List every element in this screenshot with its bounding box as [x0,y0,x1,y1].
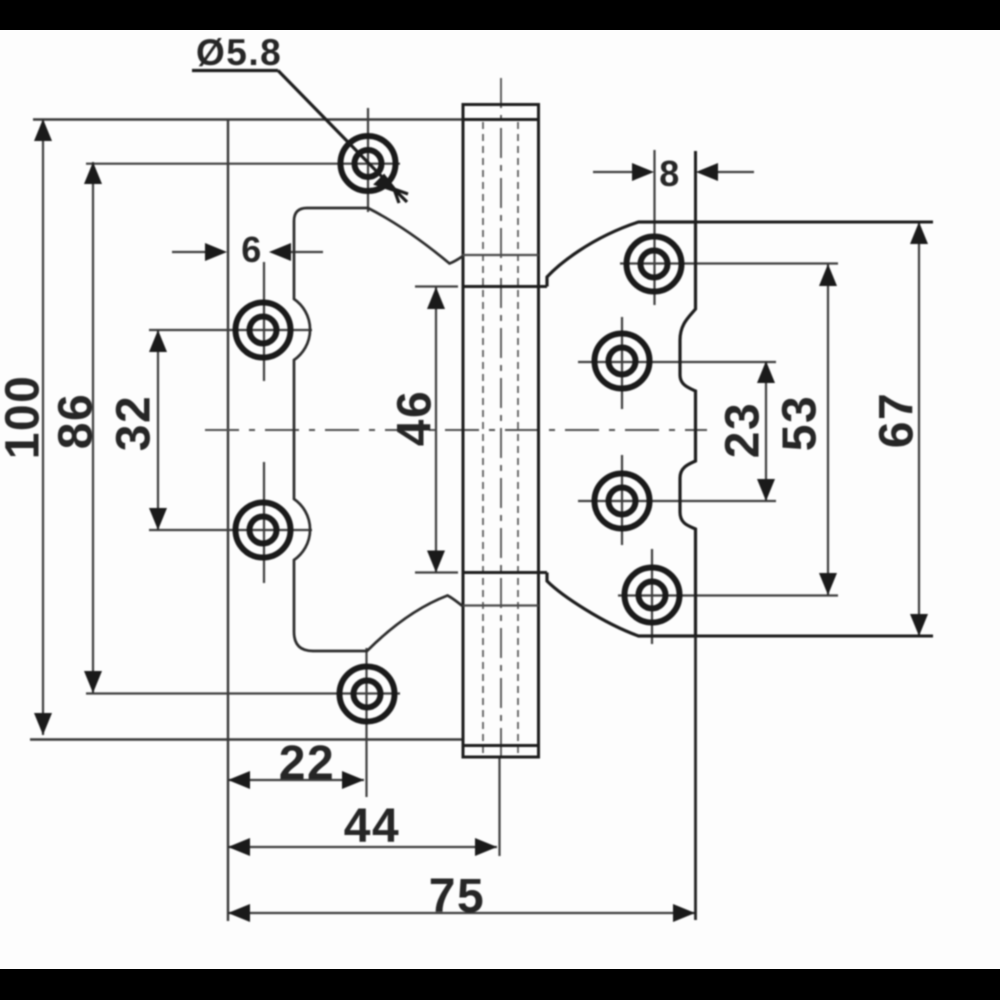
hole LM2 vertical cross [263,462,265,583]
screw hole RM2 [595,474,650,529]
dimension line 75 [228,912,695,914]
8-dim leader right [714,171,754,173]
right leaf bottom edge extension (67 dim) [695,635,933,638]
diameter leader Ø5.8 underline [192,69,278,72]
svg-text:6: 6 [241,229,263,270]
arrow 22 right [342,771,364,789]
right leaf outline [547,222,696,636]
extension line y=330 (32 top / hole LM1 cross) [149,329,312,331]
svg-text:44: 44 [344,800,400,853]
svg-text:32: 32 [108,395,161,451]
extension line y=530 (32 bottom / hole LM2 cross) [149,529,312,531]
hole RT horizontal cross / 53-dim top extension [620,262,838,264]
arrow 8 left (points right) [632,163,654,181]
hole LM1 vertical cross [263,262,265,381]
barrel outline [462,105,548,758]
6-dim leader left [172,251,209,253]
arrow 53 bottom [819,573,837,595]
dimension line 32 [157,330,159,530]
barrel top cap line [462,103,541,106]
arrow 53 top [819,264,837,286]
svg-text:22: 22 [279,737,335,790]
46-dim extension bottom [415,571,458,573]
dimension line 67 [918,222,920,636]
arrowheads [34,119,928,922]
hole LT vertical cross [367,108,369,212]
right leaf right edge lower extension (75 dim) [694,636,697,920]
23-dim bottom extension / hole RM2 cross [578,500,776,502]
barrel bottom cap line [462,756,541,759]
dimension line 86 [92,162,94,693]
svg-text:8: 8 [659,153,681,194]
arrow 22 left [228,771,250,789]
barrel pin vertical centerline [500,78,502,757]
svg-text:53: 53 [774,395,827,451]
dimension line 22 [228,779,364,781]
arrow 6 left (points right) [205,243,227,261]
hole RB vertical cross [651,549,653,644]
arrow 100 top [34,119,52,141]
arrow 86 bottom [84,671,102,693]
dimension line 46 [435,287,437,572]
screw hole LM2 [236,503,291,558]
screw hole RB [625,568,680,623]
barrel left edge [462,105,465,758]
arrow 32 bottom [149,508,167,530]
svg-text:86: 86 [50,393,103,449]
horizontal centerline of hinge [205,429,707,431]
barrel top knuckle line [462,118,541,121]
hole LB vertical cross + 22-dim extension [365,648,367,797]
dimension line 44 [228,846,497,848]
6-dim leader right [288,251,323,253]
8-dim extension / hole RT vertical cross [653,150,655,305]
extension line y=163.7 (86 top / hole LT cross) [86,163,400,165]
knuckle joint line lower bold [462,571,548,574]
svg-text:Ø5.8: Ø5.8 [196,32,282,73]
arrow 100 bottom [34,713,52,735]
knuckle joint line upper bold [462,285,548,288]
arrow 67 top [910,222,928,244]
thin dimension / extension / centerline work [43,108,919,913]
arrow 86 top [84,162,102,184]
left leaf left edge + extension to bottom dims [227,120,229,922]
arrow 46 top [427,287,445,309]
right leaf top edge extension (67 dim) [695,221,933,224]
arrow 32 top [149,330,167,352]
bottom letterbox bar [0,969,1000,1000]
barrel hidden line left [482,122,484,755]
screw hole LT [341,136,396,191]
hole RB horizontal cross / 53-dim bottom extension [618,594,838,596]
top letterbox bar [0,0,1000,30]
arrow 8 right (points left) [696,163,718,181]
8-dim leader left [593,171,636,173]
hole RM2 vertical cross [621,455,623,545]
left leaf top edge + 100-dim extension [33,118,540,120]
extension line y=691.5 (86 bottom / hole LB cross) [86,692,400,694]
arrow 75 left [228,904,250,922]
barrel bottom knuckle line [462,744,541,747]
svg-text:100: 100 [0,375,50,460]
44-dim right extension [498,757,500,856]
left leaf plate outline (thin rectangle) [30,120,540,922]
46-dim extension top [415,285,458,287]
svg-text:67: 67 [871,392,924,448]
arrow 23 top [757,361,775,383]
svg-text:23: 23 [717,402,770,458]
left leaf recess outline [294,208,463,651]
arrow 46 bottom [427,551,445,573]
screw hole LB [340,667,395,722]
arrow 23 bottom [757,479,775,501]
arrow 6 right (points left) [269,243,291,261]
dimension line 23 [765,361,767,501]
diameter leader diagonal [278,71,390,186]
barrel right edge [537,105,540,758]
screw hole RT [627,237,682,292]
arrow 44 right [475,838,497,856]
arrow 67 bottom [910,614,928,636]
svg-text:46: 46 [389,390,442,446]
screw hole LM1 [236,303,291,358]
dimension line 53 [827,264,829,595]
arrow 44 left [228,838,250,856]
diameter leader arrowhead [376,176,408,203]
arrow 75 right [673,904,695,922]
dimension line 100 [42,119,44,735]
screw hole RM1 [595,334,650,389]
left leaf bottom edge + 100-dim extension [30,738,463,740]
hole RM1 vertical cross [621,317,623,409]
barrel hidden line right [517,122,519,755]
knuckle joint line lower thin [462,604,539,606]
svg-text:75: 75 [429,870,485,923]
23-dim top extension / hole RM1 cross [578,361,776,363]
right leaf right edge upper extension (8 dim) [694,151,697,222]
knuckle joint line upper thin [462,254,539,256]
